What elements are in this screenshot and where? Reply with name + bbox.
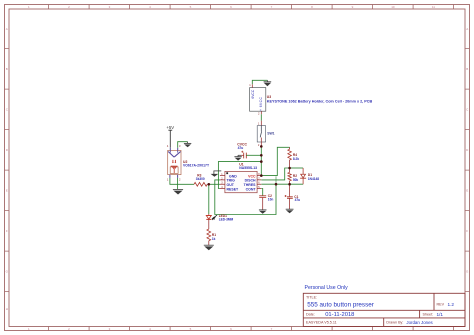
svg-text:KEYSTONE 1062 Battery Holder,: KEYSTONE 1062 Battery Holder, Coin Cell … <box>267 99 373 103</box>
ground (opto pin2, large) <box>173 189 183 194</box>
svg-text:47u: 47u <box>238 146 244 150</box>
junction R2/C1/THRES node <box>288 183 291 186</box>
wire battery to SW1 <box>260 114 262 120</box>
svg-text:A: A <box>466 27 468 31</box>
svg-text:RESET: RESET <box>227 187 240 191</box>
svg-text:Jordan Jones: Jordan Jones <box>406 320 433 325</box>
ground (555 GND pin) <box>211 171 222 177</box>
svg-text:1.2: 1.2 <box>448 302 455 307</box>
wire VCC row and riser to R4 top <box>261 147 289 175</box>
svg-text:SW1: SW1 <box>267 132 274 136</box>
switch SW1 <box>257 121 274 147</box>
optocoupler U2 <box>167 144 210 182</box>
svg-text:VO617A-2X017T: VO617A-2X017T <box>183 164 210 168</box>
wire battery pin1 to ground <box>252 80 267 84</box>
svg-text:1k: 1k <box>212 237 216 241</box>
svg-text:Personal Use Only: Personal Use Only <box>305 285 349 291</box>
svg-text:REV: REV <box>437 303 445 307</box>
wire R4 bottom junction to D1 top <box>290 167 304 169</box>
junction RESET rail node <box>260 160 263 163</box>
wire OUT junction down to LED1 <box>208 184 210 214</box>
wire RESET rail (VCC to RESET pin) <box>218 162 261 189</box>
ground (R1, large) <box>204 245 214 250</box>
wire CVCC cap to rail <box>246 154 261 156</box>
svg-text:10n: 10n <box>268 198 274 202</box>
svg-text:555 auto button presser: 555 auto button presser <box>307 301 374 308</box>
svg-text:50k: 50k <box>293 178 299 182</box>
svg-text:E: E <box>6 188 8 192</box>
svg-text:8.2k: 8.2k <box>293 157 299 161</box>
junction THRES/TRIG link node <box>275 183 278 186</box>
wire R3 junction to OUT pin <box>209 183 220 185</box>
wire CONT to C2 <box>261 189 262 196</box>
ground (C1) <box>286 209 294 213</box>
wire TRIG loop (TRIG-THRES link) <box>215 180 276 215</box>
junction R4/R2/DISCH node <box>288 167 291 170</box>
capacitor C1 <box>285 184 301 209</box>
svg-text:B: B <box>6 67 8 71</box>
svg-text:10: 10 <box>391 5 395 9</box>
wire opto pin2 down to ground <box>177 178 179 189</box>
svg-text:LED-3MM: LED-3MM <box>219 218 234 222</box>
svg-text:Sheet:: Sheet: <box>423 313 434 317</box>
svg-text:B: B <box>466 67 468 71</box>
ground (battery) <box>264 80 272 86</box>
svg-text:Drawn By:: Drawn By: <box>386 321 403 325</box>
title block <box>303 293 465 326</box>
ground (C2) <box>259 210 267 214</box>
ground (CVCC) <box>234 155 241 160</box>
net flag +5V <box>166 125 174 148</box>
battery holder U3 <box>249 83 372 115</box>
wire THRES row <box>261 183 303 185</box>
capacitor C2 <box>259 194 273 210</box>
svg-text:NA555S-13: NA555S-13 <box>239 166 257 170</box>
svg-text:11: 11 <box>432 5 435 9</box>
svg-text:H: H <box>6 307 8 311</box>
svg-text:6VCC: 6VCC <box>251 89 255 98</box>
svg-text:Date:: Date: <box>306 313 315 317</box>
svg-text:E: E <box>466 188 468 192</box>
svg-text:TITLE:: TITLE: <box>306 296 317 300</box>
svg-text:+5V: +5V <box>166 125 174 130</box>
svg-text:EASYEDA V5.5.11: EASYEDA V5.5.11 <box>306 321 337 325</box>
junction VCC pin node <box>260 174 263 177</box>
svg-text:01-11-2018: 01-11-2018 <box>325 312 354 318</box>
svg-text:F: F <box>466 229 468 233</box>
resistor R1 <box>207 229 216 245</box>
resistor R3 <box>194 173 209 186</box>
svg-text:1N4148: 1N4148 <box>308 177 319 181</box>
wire riser segment <box>275 176 277 184</box>
net label CVCC + capacitor CVCC <box>237 143 247 159</box>
junction SW1 output node <box>260 145 263 148</box>
ground (opto top) <box>184 142 191 148</box>
svg-text:F: F <box>6 229 8 233</box>
resistor R4 <box>288 147 300 168</box>
svg-text:3k300: 3k300 <box>196 177 205 181</box>
wire opto pin1 to R3 <box>170 178 194 184</box>
wire DISCH to R4/R2 junction <box>261 168 289 180</box>
IC U1 NA555S-13 (555 timer) <box>220 162 261 192</box>
svg-text:47u: 47u <box>295 198 301 202</box>
svg-text:A: A <box>6 27 8 31</box>
LED LED1 <box>206 214 233 229</box>
svg-text:+ 6VCC: + 6VCC <box>259 96 263 111</box>
wire SW1 down to VCC pin (main rail) <box>260 146 262 175</box>
junction CVCC cap node <box>260 154 263 157</box>
diode D1 <box>300 168 319 184</box>
title block text <box>305 285 455 325</box>
resistor R2 <box>288 168 299 184</box>
svg-text:CONT: CONT <box>246 187 257 191</box>
junction OUT/R3/LED node <box>208 183 211 186</box>
wire opto pin3 to ground <box>178 142 188 148</box>
svg-text:1/1: 1/1 <box>437 312 444 317</box>
